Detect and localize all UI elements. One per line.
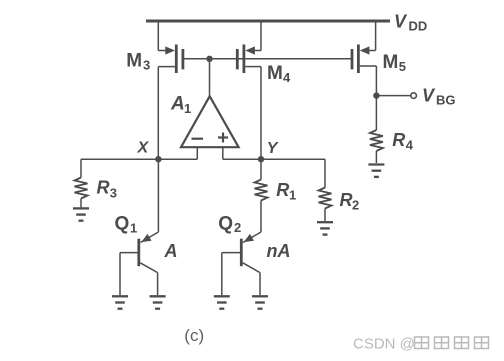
svg-text:nA: nA <box>267 241 291 261</box>
resistor R2 <box>319 159 332 221</box>
resistor R1 <box>255 159 268 200</box>
VDD rail <box>146 20 390 23</box>
resistor R4 <box>370 96 383 163</box>
svg-text:BG: BG <box>436 93 456 108</box>
transistor M5 <box>352 21 376 73</box>
label A emitter area of Q1 <box>164 241 178 261</box>
svg-text:M: M <box>267 63 283 84</box>
resistor R3 <box>75 159 88 207</box>
wire Q2 base to ground <box>221 253 223 296</box>
label Q1 <box>115 214 138 236</box>
transistor M3 <box>158 21 183 73</box>
svg-text:Y: Y <box>267 140 279 157</box>
label X <box>137 140 150 157</box>
label (c) <box>184 326 204 345</box>
ground Q2 base <box>214 296 230 308</box>
svg-text:3: 3 <box>110 186 117 201</box>
svg-text:1: 1 <box>130 220 137 235</box>
label A1 <box>170 94 191 117</box>
svg-text:(c): (c) <box>184 326 204 345</box>
wire M3 drain to node X <box>157 67 159 160</box>
wire Q1 collector to ground <box>157 273 159 296</box>
op-amp positive input stub <box>222 147 224 159</box>
svg-text:4: 4 <box>283 70 291 85</box>
junction gate node <box>206 56 212 62</box>
terminal VBG open circle <box>411 93 417 99</box>
node X <box>155 156 161 162</box>
svg-text:CSDN @: CSDN @ <box>353 336 415 353</box>
svg-text:R: R <box>97 177 110 197</box>
svg-text:1: 1 <box>289 188 296 203</box>
op-amp A1 <box>181 96 239 147</box>
svg-text:DD: DD <box>409 19 428 34</box>
label R1 <box>276 180 296 203</box>
svg-text:Q: Q <box>218 214 233 235</box>
label nA emitter area of Q2 <box>267 241 291 261</box>
ground R4 <box>368 165 384 177</box>
op-amp negative input stub <box>196 147 198 159</box>
transistor Q2 <box>222 232 261 273</box>
label M5 <box>383 52 406 74</box>
wire node X rail <box>81 158 197 160</box>
transistor M4 <box>237 21 261 73</box>
wire node to VBG terminal <box>376 95 410 97</box>
wire Q1 base to ground <box>119 253 121 296</box>
wire M4 drain to node Y <box>260 67 262 160</box>
label R3 <box>97 177 118 200</box>
label M4 <box>267 63 291 85</box>
svg-text:5: 5 <box>399 59 406 74</box>
label VDD <box>394 12 427 34</box>
svg-text:R: R <box>392 130 405 150</box>
svg-text:M: M <box>126 50 142 71</box>
label Q2 <box>218 214 241 236</box>
svg-text:X: X <box>137 140 150 157</box>
watermark <box>353 336 415 353</box>
node VBG junction <box>373 92 379 98</box>
ground R2 <box>317 222 333 234</box>
wire R1 to Q2 emitter <box>260 201 262 233</box>
label Y <box>267 140 279 157</box>
svg-text:V: V <box>394 12 408 32</box>
wire node Y rail <box>223 158 325 160</box>
ground Q1 base <box>112 296 128 308</box>
ground Q2 collector <box>252 296 268 308</box>
svg-text:2: 2 <box>234 220 241 235</box>
svg-text:1: 1 <box>184 101 191 116</box>
transistor Q1 <box>120 232 158 273</box>
svg-text:4: 4 <box>406 138 414 153</box>
svg-text:M: M <box>383 52 399 73</box>
svg-text:2: 2 <box>352 198 359 213</box>
wire M5 drain to node VBG <box>375 66 377 96</box>
label M3 <box>126 50 150 72</box>
label R4 <box>392 130 414 153</box>
label VBG <box>422 86 456 108</box>
label R2 <box>340 190 360 213</box>
wire Q2 collector to ground <box>259 273 261 296</box>
ground R3 <box>73 208 89 220</box>
svg-text:A: A <box>164 241 178 261</box>
svg-text:Q: Q <box>115 214 130 235</box>
node Y <box>258 156 264 162</box>
wire gate node to op-amp output <box>209 59 211 97</box>
common gate wire <box>183 58 352 60</box>
svg-text:3: 3 <box>143 57 150 72</box>
svg-text:R: R <box>340 190 353 210</box>
wire node X to Q1 emitter <box>157 159 159 232</box>
svg-text:V: V <box>422 86 436 106</box>
svg-text:R: R <box>276 180 289 200</box>
svg-text:A: A <box>170 94 185 115</box>
ground Q1 collector <box>150 296 166 308</box>
